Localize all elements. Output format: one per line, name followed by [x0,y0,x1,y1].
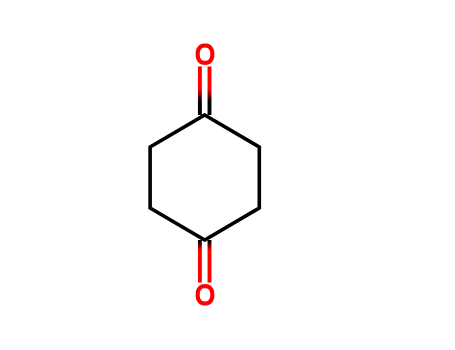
double bond C4=O2 (bottom), right line [208,240,212,283]
atom label O1 (top oxygen) [198,46,213,63]
atom label O2 (bottom oxygen) [198,286,213,303]
double bond C4=O2 (bottom), left line [198,240,202,283]
double bond C1=O1 (top), right line [208,67,212,116]
double bond C1=O1 (top), left line [198,67,202,116]
ring: cyclohexane hexagon C1-C2-C3-C4-C5-C6 [150,115,259,240]
